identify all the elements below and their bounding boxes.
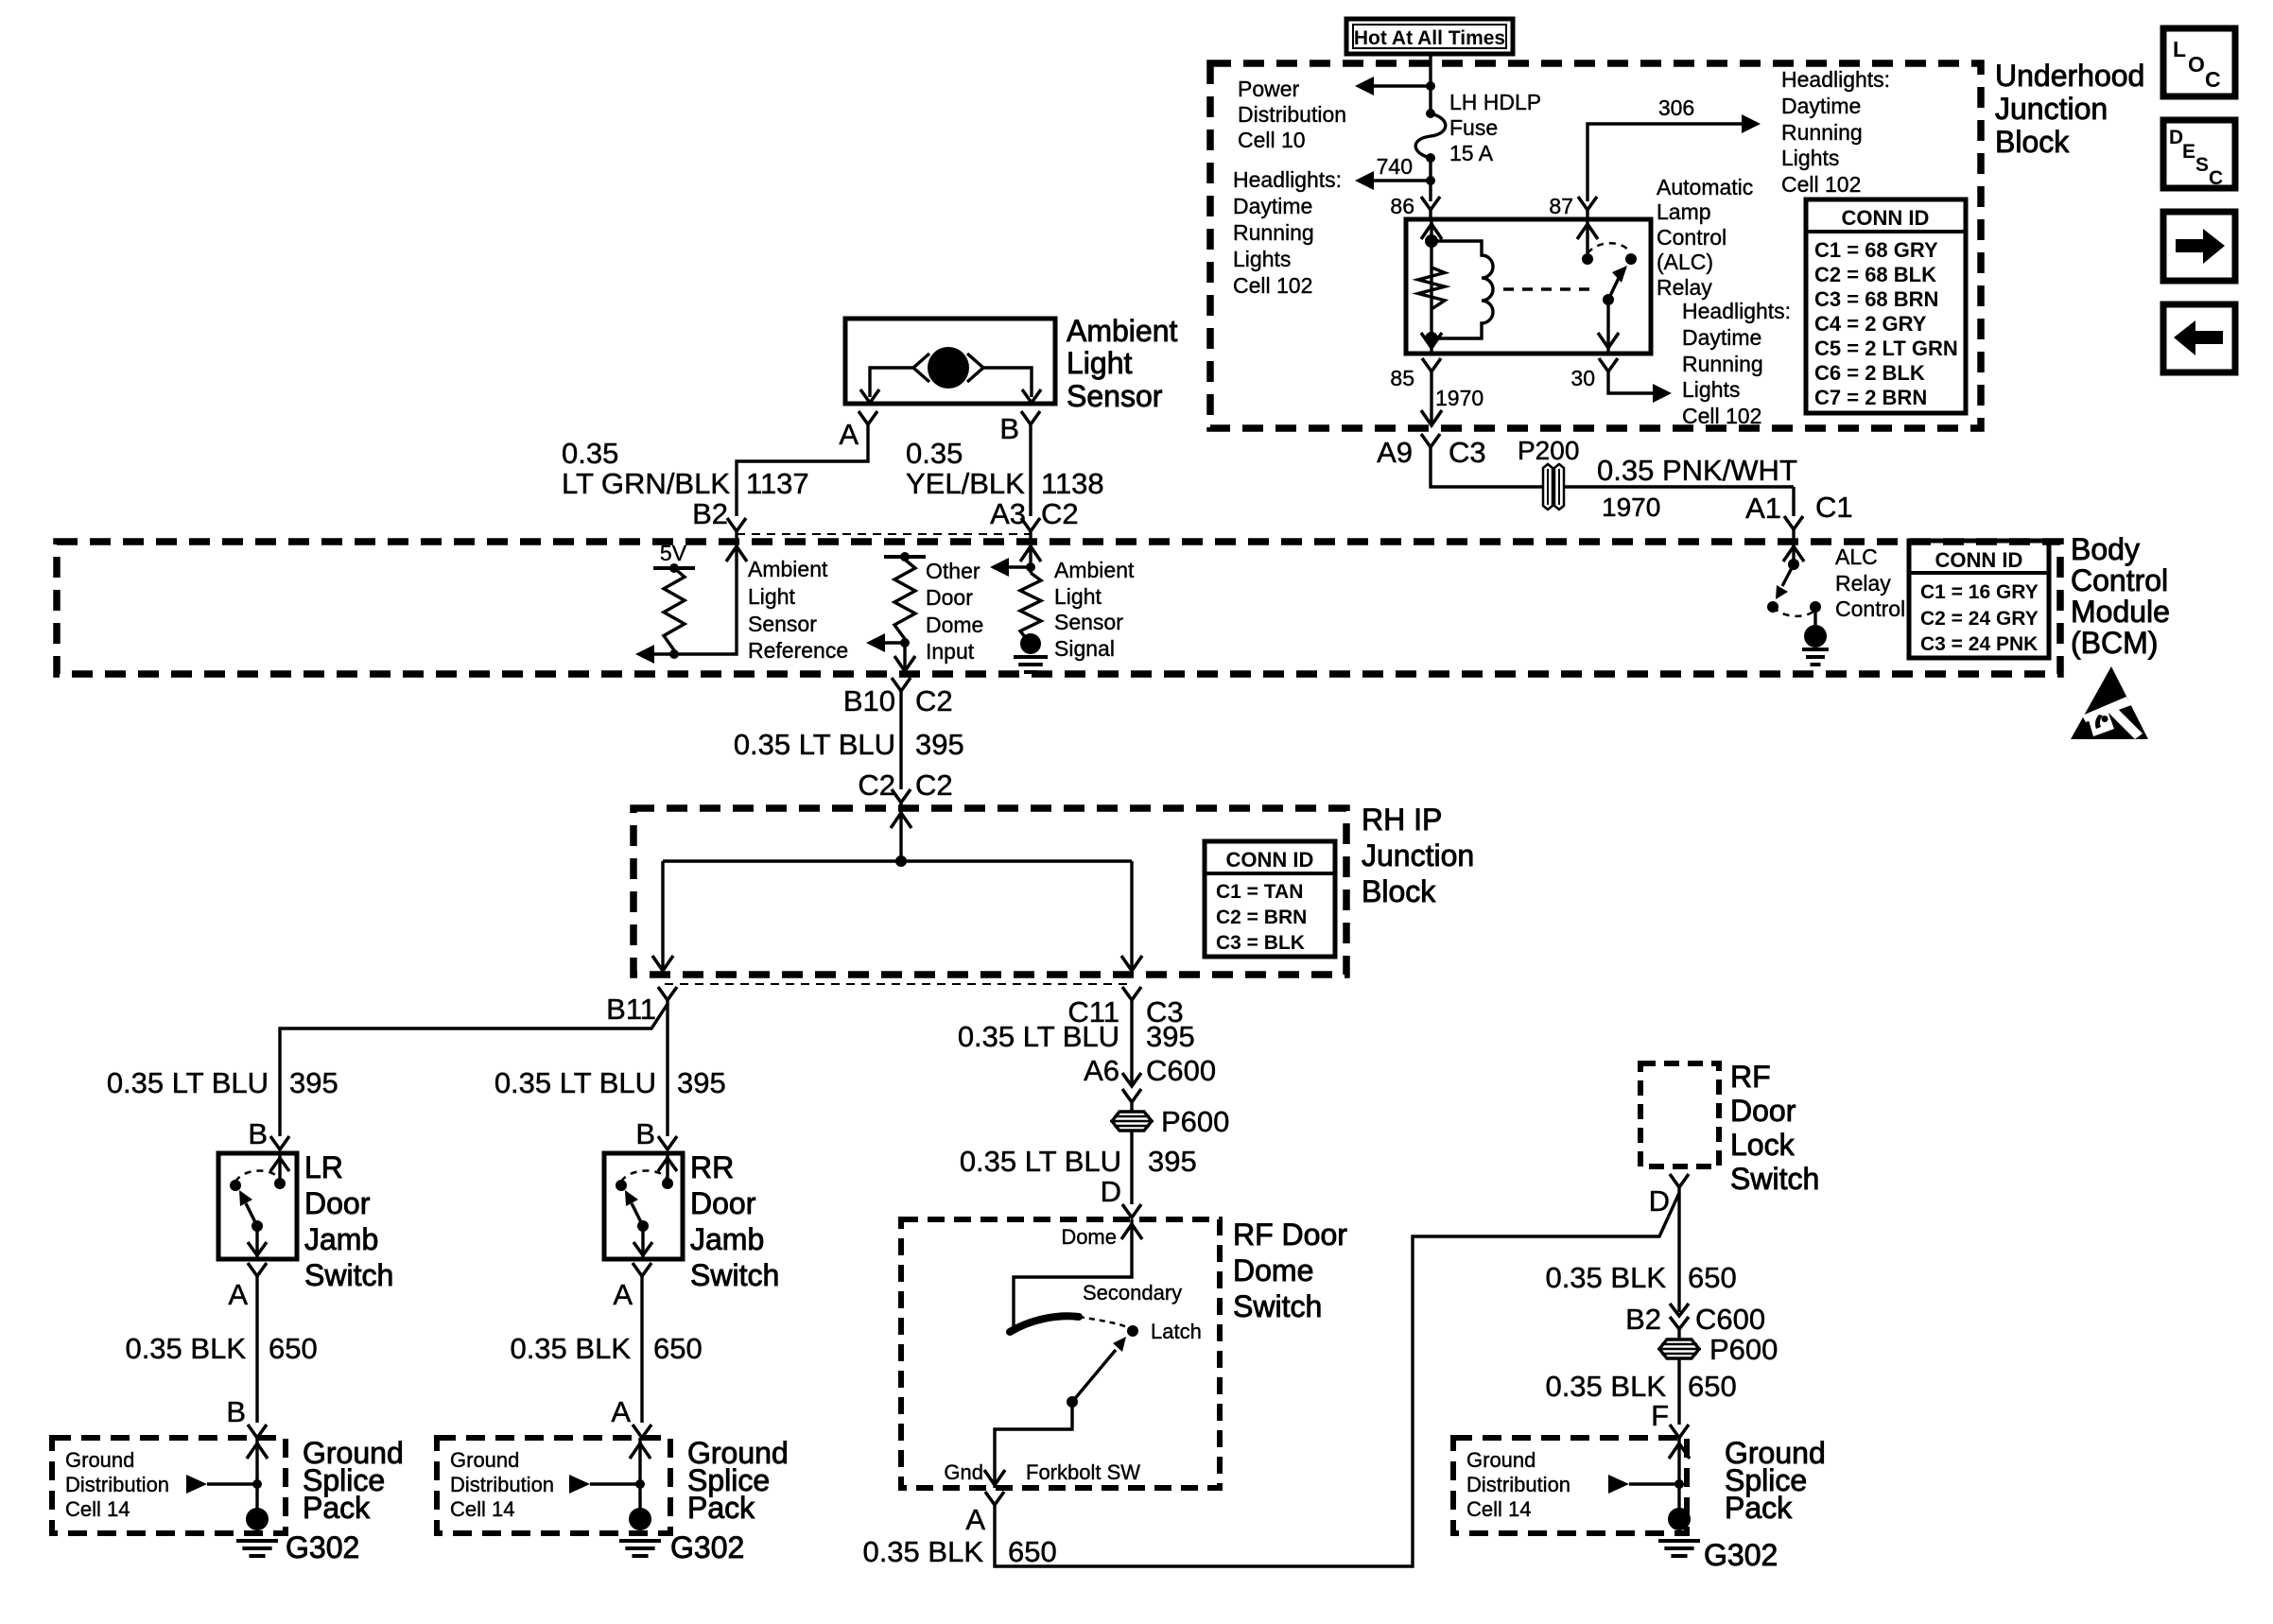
off-page arrow signal: [990, 558, 1009, 577]
LR door jamb switch: [218, 1153, 297, 1259]
next page arrow icon: [2163, 212, 2235, 281]
svg-text:Door: Door: [1730, 1094, 1796, 1128]
svg-text:0.35 PNK/WHT: 0.35 PNK/WHT: [1597, 454, 1797, 487]
svg-text:Ambient: Ambient: [1067, 314, 1178, 348]
svg-text:Junction: Junction: [1995, 92, 2108, 126]
svg-text:Switch: Switch: [1233, 1289, 1322, 1323]
svg-text:CONN ID: CONN ID: [1226, 848, 1314, 872]
svg-text:Daytime: Daytime: [1233, 194, 1312, 218]
svg-text:Switch: Switch: [690, 1258, 779, 1292]
connector interface dashed line: [737, 533, 1031, 535]
junction node 740: [1426, 176, 1435, 185]
svg-text:Secondary: Secondary: [1083, 1281, 1182, 1304]
off-page arrow 306: [1742, 114, 1761, 133]
svg-text:650: 650: [653, 1332, 703, 1365]
svg-text:Lock: Lock: [1730, 1128, 1796, 1162]
svg-text:C7 = 2 BRN: C7 = 2 BRN: [1814, 386, 1927, 409]
svg-text:Ambient: Ambient: [1054, 558, 1135, 582]
svg-text:Latch: Latch: [1151, 1320, 1202, 1343]
svg-text:Daytime: Daytime: [1781, 94, 1861, 118]
ALC switch pivot node: [1788, 559, 1799, 570]
svg-text:C3 = BLK: C3 = BLK: [1216, 932, 1305, 954]
svg-text:O: O: [2188, 52, 2205, 77]
svg-text:Dome: Dome: [1233, 1253, 1313, 1287]
svg-text:B2: B2: [1625, 1303, 1661, 1336]
connector A6/C600: [1122, 1089, 1141, 1102]
signal ground symbol: [1014, 655, 1048, 659]
other door node: [900, 638, 910, 648]
svg-text:650: 650: [269, 1332, 318, 1365]
svg-text:A3: A3: [990, 497, 1026, 530]
relay pin30 down arrow: [1598, 333, 1619, 348]
resistor ambient light sensor signal: [1020, 573, 1041, 644]
svg-text:Control: Control: [1657, 225, 1726, 250]
svg-text:87: 87: [1549, 194, 1573, 218]
RH IP junction node: [895, 855, 907, 867]
svg-text:S: S: [2195, 154, 2209, 176]
svg-text:0.35: 0.35: [562, 437, 618, 470]
svg-text:C1 = 16 GRY: C1 = 16 GRY: [1920, 581, 2039, 603]
arrow down at UJB boundary: [1421, 410, 1442, 425]
prev page arrow icon: [2163, 304, 2235, 372]
svg-text:C2: C2: [858, 769, 895, 802]
relay switch wire pin 87: [1586, 219, 1588, 253]
svg-text:C2: C2: [915, 769, 953, 802]
svg-text:C2 = 24 GRY: C2 = 24 GRY: [1920, 608, 2039, 630]
svg-text:Lights: Lights: [1682, 377, 1740, 402]
svg-text:Body: Body: [2071, 532, 2140, 566]
svg-text:A: A: [228, 1278, 248, 1311]
resistor other door dome input: [894, 560, 915, 639]
CONN ID table BCM: [1909, 541, 2049, 658]
svg-text:C2 = BRN: C2 = BRN: [1216, 907, 1307, 928]
underhood junction block dashed box: [1210, 63, 1981, 428]
svg-text:RF Door: RF Door: [1233, 1218, 1347, 1252]
svg-text:G302: G302: [670, 1530, 744, 1564]
5V supply bar: [653, 566, 695, 570]
svg-text:C5 = 2 LT GRN: C5 = 2 LT GRN: [1814, 337, 1958, 360]
reference resistor node: [669, 649, 679, 659]
svg-text:Running: Running: [1233, 220, 1314, 245]
svg-text:Relay: Relay: [1835, 571, 1891, 596]
svg-text:C600: C600: [1146, 1054, 1216, 1087]
relay switch arrow to pin 87: [1577, 224, 1598, 239]
wire 395 C11 to A6: [1130, 1000, 1133, 1086]
svg-text:0.35 BLK: 0.35 BLK: [1545, 1261, 1666, 1294]
signal wire from C2 into BCM: [1029, 531, 1032, 573]
relay resistor element: [1418, 268, 1445, 309]
svg-text:B2: B2: [692, 497, 728, 530]
signal node: [1026, 562, 1035, 572]
svg-text:Ground: Ground: [450, 1448, 519, 1472]
RH IP left branch wire: [661, 861, 664, 973]
svg-text:Cell 102: Cell 102: [1233, 273, 1312, 298]
sensor left down arrow: [860, 389, 879, 403]
svg-text:Ground: Ground: [65, 1448, 134, 1472]
RR ground splice pack: [437, 1438, 670, 1533]
connector B2: [727, 518, 746, 531]
wire to Power Distribution Cell 10: [1374, 84, 1431, 87]
svg-text:Jamb: Jamb: [304, 1222, 378, 1256]
svg-text:1970: 1970: [1602, 492, 1660, 522]
svg-text:C: C: [2209, 167, 2223, 189]
svg-text:(BCM): (BCM): [2071, 626, 2158, 660]
svg-text:Running: Running: [1682, 352, 1763, 376]
junction node on feed wire: [1426, 81, 1435, 91]
fuse F 'LH HDLP Fuse 15 A': [1415, 113, 1446, 158]
svg-text:P200: P200: [1518, 436, 1579, 465]
connector A1/C1: [1784, 516, 1803, 529]
inline connector P600 (dome): [1112, 1112, 1152, 1131]
svg-text:Power: Power: [1238, 77, 1300, 101]
off-page arrow 740: [1355, 171, 1374, 190]
svg-text:Lights: Lights: [1781, 146, 1839, 170]
svg-text:Underhood: Underhood: [1995, 59, 2144, 93]
svg-text:Junction: Junction: [1362, 838, 1474, 872]
connector dome pin D: [1122, 1204, 1141, 1218]
relay switch contact common: [1582, 253, 1593, 265]
svg-text:0.35 BLK: 0.35 BLK: [862, 1535, 983, 1568]
relay coil inductor: [1431, 241, 1493, 338]
wire 740 to Headlights: [1374, 179, 1431, 181]
svg-text:Reference: Reference: [748, 638, 848, 663]
svg-text:395: 395: [1146, 1020, 1195, 1053]
svg-text:Light: Light: [1054, 584, 1102, 609]
svg-text:Headlights:: Headlights:: [1682, 299, 1791, 323]
signal ground terminal dot: [1020, 633, 1041, 654]
RH IP left branch arrow: [652, 956, 673, 971]
svg-text:C4 = 2 GRY: C4 = 2 GRY: [1814, 312, 1927, 336]
svg-text:A: A: [611, 1395, 631, 1428]
RH IP right branch arrow: [1121, 956, 1142, 971]
svg-text:Sensor: Sensor: [1054, 610, 1123, 634]
svg-text:0.35 LT BLU: 0.35 LT BLU: [495, 1066, 656, 1099]
other door dome input bar: [884, 555, 926, 559]
connector pin 30: [1599, 358, 1618, 371]
wire P600 to F: [1677, 1358, 1680, 1425]
svg-text:Cell 10: Cell 10: [1238, 128, 1306, 152]
svg-text:740: 740: [1377, 154, 1413, 179]
svg-text:C1 = 68 GRY: C1 = 68 GRY: [1814, 238, 1938, 262]
connector B10/C2: [892, 678, 911, 691]
ALC switch contact: [1767, 601, 1778, 613]
relay K 'Automatic Lamp Control (ALC) Relay' box: [1406, 219, 1651, 354]
svg-text:L: L: [2173, 37, 2186, 61]
connector RR splice: [633, 1425, 651, 1438]
svg-text:YEL/BLK: YEL/BLK: [906, 467, 1025, 500]
relay switch throw dashed arc: [1588, 243, 1630, 253]
sensor left wire: [870, 368, 913, 397]
svg-text:650: 650: [1008, 1535, 1057, 1568]
svg-text:B10: B10: [843, 684, 895, 717]
svg-text:Distribution: Distribution: [450, 1473, 554, 1496]
dome switch dashed throw arc: [1079, 1317, 1129, 1328]
reference output wire: [651, 531, 737, 654]
relay switch moving arm: [1608, 278, 1619, 300]
svg-text:A1: A1: [1745, 492, 1781, 525]
LOC nav icon: [2163, 28, 2235, 96]
other door arrow down: [894, 656, 915, 671]
RH IP bus wire: [663, 859, 1132, 862]
svg-text:RR: RR: [690, 1150, 734, 1184]
dome entry arrow: [1121, 1224, 1142, 1239]
svg-text:1970: 1970: [1435, 386, 1484, 410]
connector LR pin A: [248, 1263, 267, 1276]
svg-text:G302: G302: [1704, 1538, 1778, 1572]
relay actuation dashed link: [1503, 287, 1596, 290]
off-page arrow reference: [635, 645, 654, 664]
wire pin 87 up to 306: [1588, 124, 1742, 201]
RH IP right branch wire: [1130, 861, 1133, 973]
inline connector P600 (lock): [1659, 1339, 1699, 1358]
connector sensor pin A: [859, 411, 877, 424]
svg-text:Distribution: Distribution: [1466, 1473, 1570, 1496]
wire 650 LR to splice: [255, 1276, 258, 1423]
connector sensor pin B: [1021, 411, 1040, 424]
svg-text:Sensor: Sensor: [748, 612, 817, 636]
other door left arrow wire: [885, 641, 905, 644]
svg-text:Jamb: Jamb: [690, 1222, 764, 1256]
wire 650 dome to lock switch: [995, 1193, 1679, 1566]
double arrow at C600 (lock): [1670, 1304, 1689, 1316]
svg-text:0.35: 0.35: [906, 437, 963, 470]
sensor right wire: [983, 368, 1032, 397]
dome switch output wire: [995, 1402, 1072, 1488]
connector C2/C2: [892, 789, 911, 803]
relay coil node bottom: [1425, 332, 1438, 345]
svg-text:G302: G302: [286, 1530, 359, 1564]
svg-text:Light: Light: [748, 584, 795, 609]
connector pin 87: [1578, 197, 1597, 210]
CONN ID table RH IP: [1205, 841, 1335, 957]
svg-text:Hot At All Times: Hot At All Times: [1354, 27, 1505, 49]
svg-text:A9: A9: [1377, 436, 1413, 469]
svg-text:A: A: [965, 1503, 985, 1536]
svg-text:B: B: [999, 412, 1019, 445]
svg-text:P600: P600: [1709, 1333, 1778, 1366]
svg-text:650: 650: [1688, 1261, 1737, 1294]
wire 650 RR to splice: [640, 1276, 643, 1423]
svg-text:Pack: Pack: [687, 1491, 755, 1525]
svg-text:C2: C2: [915, 684, 953, 717]
svg-text:C: C: [2205, 67, 2221, 92]
svg-text:Pack: Pack: [303, 1491, 371, 1525]
svg-text:Lights: Lights: [1233, 247, 1291, 271]
ALC switch ground contact: [1810, 601, 1821, 613]
svg-text:B: B: [635, 1117, 655, 1150]
svg-text:395: 395: [1148, 1145, 1197, 1178]
wire fuse to pin 86: [1429, 158, 1431, 201]
wire A9 to A1: [1431, 447, 1794, 487]
RH IP junction block dashed box: [633, 808, 1346, 975]
svg-text:C1: C1: [1815, 491, 1853, 524]
body control module dashed box: [57, 542, 2060, 674]
ALC ground symbol: [1802, 648, 1829, 651]
RH IP connector dashed line: [665, 983, 1132, 985]
RH IP entry arrow: [891, 813, 911, 828]
svg-text:CONN ID: CONN ID: [1842, 206, 1930, 230]
svg-text:C3 = 68 BRN: C3 = 68 BRN: [1814, 287, 1938, 311]
svg-text:A: A: [839, 418, 859, 451]
svg-text:0.35 LT BLU: 0.35 LT BLU: [734, 728, 895, 761]
svg-text:C1 = TAN: C1 = TAN: [1216, 881, 1303, 903]
relay coil node top: [1425, 234, 1438, 248]
svg-text:Module: Module: [2071, 595, 2170, 629]
svg-text:F: F: [1651, 1399, 1669, 1432]
svg-text:1137: 1137: [746, 467, 809, 500]
svg-text:LR: LR: [304, 1150, 343, 1184]
svg-text:Ground: Ground: [1466, 1448, 1536, 1472]
wire 1138 sensor B to BCM C2: [1029, 424, 1032, 516]
sensor left ray arrow: [913, 354, 929, 382]
connector B11: [658, 987, 677, 1000]
dome switch arm pivot: [1067, 1396, 1078, 1408]
connector pin 86: [1421, 197, 1440, 210]
svg-text:Door: Door: [304, 1186, 371, 1220]
wire to P600 (lock): [1677, 1329, 1680, 1339]
power label box 'Hot At All Times': [1346, 19, 1513, 54]
svg-text:B: B: [248, 1117, 268, 1150]
wire 395 B10 to RH IP: [899, 691, 902, 789]
svg-text:Block: Block: [1362, 874, 1436, 908]
svg-text:Cell 14: Cell 14: [450, 1497, 514, 1521]
wire B11 branch to LR: [280, 1004, 668, 1136]
svg-text:Cell 14: Cell 14: [1466, 1497, 1531, 1521]
svg-text:0.35 LT BLU: 0.35 LT BLU: [960, 1145, 1121, 1178]
svg-text:Daytime: Daytime: [1682, 325, 1761, 350]
svg-text:Signal: Signal: [1054, 636, 1115, 661]
connector lock pin D: [1670, 1174, 1689, 1187]
svg-text:Fuse: Fuse: [1449, 115, 1498, 140]
relay pin85 down arrow: [1421, 333, 1442, 348]
svg-text:0.35 BLK: 0.35 BLK: [1545, 1370, 1666, 1403]
svg-text:P600: P600: [1161, 1105, 1229, 1138]
resistor ambient light sensor reference: [664, 568, 685, 650]
off-page arrow to Power Distribution: [1355, 77, 1374, 95]
dome switch latch contact: [1127, 1325, 1138, 1337]
svg-text:Dome: Dome: [1061, 1225, 1117, 1249]
svg-text:0.35 LT BLU: 0.35 LT BLU: [107, 1066, 269, 1099]
svg-text:395: 395: [289, 1066, 338, 1099]
svg-text:C2 = 68 BLK: C2 = 68 BLK: [1814, 263, 1936, 286]
svg-text:A6: A6: [1084, 1054, 1119, 1087]
svg-text:Switch: Switch: [304, 1258, 393, 1292]
svg-text:RH IP: RH IP: [1362, 803, 1442, 837]
dome switch arm: [1072, 1350, 1116, 1402]
connector pin 85: [1422, 358, 1441, 371]
svg-text:Cell 102: Cell 102: [1682, 404, 1761, 428]
off-page arrow pin30: [1653, 384, 1672, 403]
wire 1137 sensor A to BCM B2: [737, 424, 868, 516]
svg-text:Block: Block: [1995, 125, 2070, 159]
svg-text:C2: C2: [1041, 497, 1079, 530]
svg-text:C6 = 2 BLK: C6 = 2 BLK: [1814, 361, 1925, 385]
svg-text:Running: Running: [1781, 120, 1863, 145]
LR ground splice pack: [52, 1438, 286, 1533]
wire 650 lock to C600: [1677, 1187, 1680, 1312]
svg-text:Cell 14: Cell 14: [65, 1497, 130, 1521]
svg-text:30: 30: [1570, 366, 1595, 390]
svg-text:Forkbolt SW: Forkbolt SW: [1026, 1460, 1140, 1484]
svg-text:A: A: [613, 1278, 633, 1311]
ambient light sensor box: [845, 319, 1055, 404]
svg-text:Door: Door: [690, 1186, 756, 1220]
svg-text:Gnd: Gnd: [944, 1460, 983, 1484]
svg-text:Headlights:: Headlights:: [1781, 67, 1890, 92]
inline connector P200: [1543, 464, 1553, 510]
connector C11/C3: [1122, 987, 1141, 1000]
svg-text:LH HDLP: LH HDLP: [1449, 90, 1541, 114]
svg-text:Switch: Switch: [1730, 1162, 1819, 1196]
svg-text:LT GRN/BLK: LT GRN/BLK: [562, 467, 730, 500]
svg-text:B: B: [226, 1395, 246, 1428]
svg-text:Other: Other: [926, 559, 980, 583]
RR door jamb switch: [604, 1153, 683, 1259]
wire P600 to D: [1130, 1131, 1133, 1204]
connector A9/C3: [1421, 434, 1440, 447]
connector LR pin B: [270, 1136, 289, 1149]
relay switch output wire: [1606, 300, 1609, 354]
signal left arrow wire: [1009, 565, 1031, 568]
relay coil feed arrow: [1421, 224, 1442, 239]
svg-text:D: D: [2169, 127, 2183, 148]
relay switch contact NO: [1625, 253, 1637, 265]
relay switch arm pivot: [1603, 294, 1614, 305]
svg-text:395: 395: [915, 728, 964, 761]
svg-text:CONN ID: CONN ID: [1935, 548, 2023, 572]
RF door lock switch dashed box: [1640, 1063, 1719, 1166]
svg-text:Control: Control: [1835, 596, 1905, 621]
RH IP entry wire: [899, 803, 902, 861]
svg-text:Headlights:: Headlights:: [1233, 167, 1342, 192]
svg-text:(ALC): (ALC): [1657, 250, 1713, 274]
connector LR splice: [248, 1425, 267, 1438]
svg-text:Distribution: Distribution: [1238, 102, 1346, 127]
connector C2 sensor: [1021, 518, 1040, 531]
dome switch thick arc: [1010, 1316, 1079, 1332]
arrow down at A6: [1122, 1073, 1141, 1086]
svg-text:Dome: Dome: [926, 613, 983, 637]
connector lock F: [1670, 1425, 1689, 1438]
reference arrow up into connector: [726, 546, 747, 561]
connector RR pin A: [633, 1263, 651, 1276]
svg-text:ALC: ALC: [1835, 544, 1878, 569]
wire pin85 to A9: [1430, 371, 1432, 423]
sensor right ray arrow: [967, 354, 983, 382]
svg-text:650: 650: [1688, 1370, 1737, 1403]
svg-text:C3: C3: [1449, 436, 1486, 469]
DESC nav icon: [2163, 120, 2235, 188]
wire from Hot At All Times to fuse: [1429, 54, 1431, 113]
dome switch entry wire: [1014, 1219, 1132, 1327]
wire B11 down to RR: [666, 1000, 668, 1136]
svg-text:Input: Input: [926, 639, 975, 664]
svg-text:15 A: 15 A: [1449, 141, 1494, 165]
svg-text:C3 = 24 PNK: C3 = 24 PNK: [1920, 633, 2038, 655]
ALC ground wire: [1813, 607, 1816, 628]
dome output arrow down: [984, 1470, 1005, 1485]
ALC relay control wire into BCM: [1792, 529, 1795, 564]
wire A6 to P600: [1130, 1102, 1133, 1112]
svg-text:86: 86: [1390, 194, 1414, 218]
svg-text:E: E: [2182, 141, 2195, 163]
svg-text:Pack: Pack: [1725, 1491, 1793, 1525]
svg-text:D: D: [1649, 1184, 1670, 1218]
svg-text:RF: RF: [1730, 1060, 1771, 1094]
svg-text:Distribution: Distribution: [65, 1473, 169, 1496]
off-page arrow other door: [866, 633, 885, 652]
svg-text:395: 395: [677, 1066, 726, 1099]
